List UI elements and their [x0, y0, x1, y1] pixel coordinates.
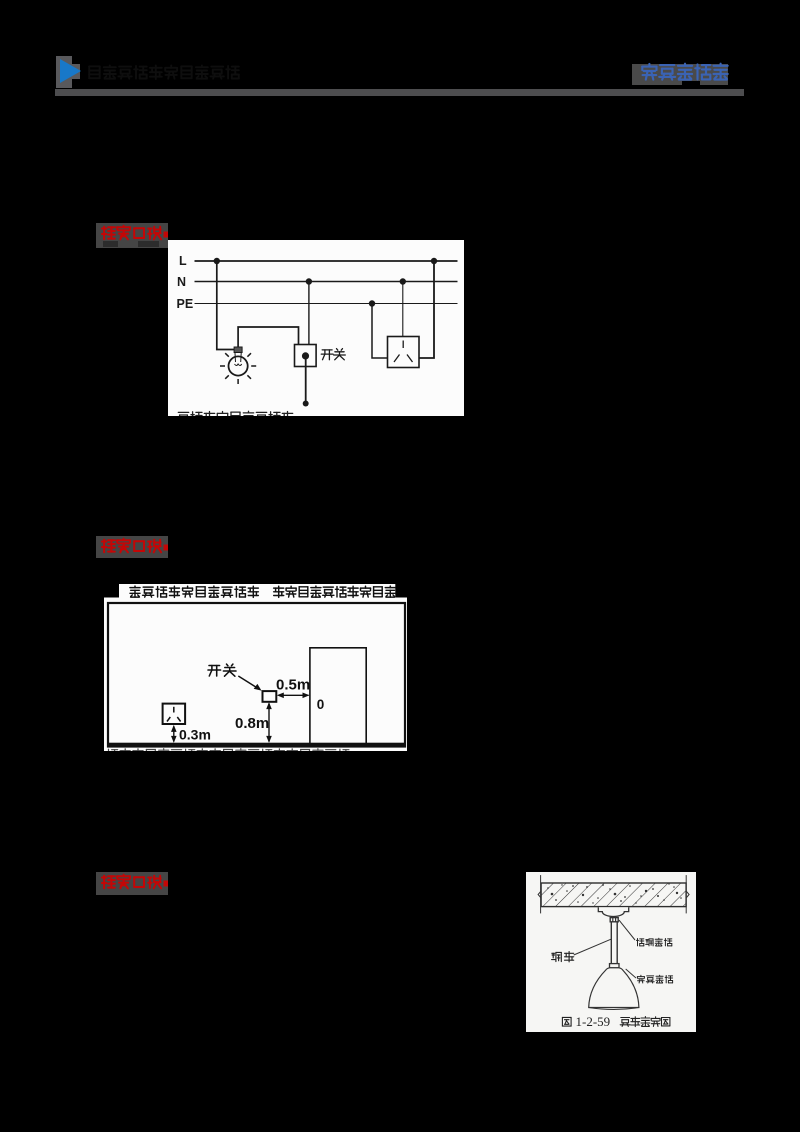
- diagram 1 white box: lighting circuit L/N/PE with lamp, switch, socket: [168, 240, 464, 416]
- label threaded connection: [638, 975, 673, 983]
- room wall rectangle: [108, 603, 405, 747]
- header logo blue play triangle: [60, 59, 81, 83]
- caption clipped at box bottom: [177, 411, 292, 423]
- wire N to switch: [307, 281, 309, 344]
- caption bottom clipped: [107, 748, 349, 760]
- label kai-guan: [208, 664, 236, 676]
- lamp EL bulb with rays: [220, 347, 256, 384]
- dim arrow 0.3m: [172, 726, 174, 741]
- switch bottom terminal dot: [302, 400, 308, 406]
- break zigzag right: [686, 891, 689, 898]
- canopy dome: [599, 907, 629, 916]
- wire lamp top to switch: [238, 327, 298, 347]
- svg-text:PE: PE: [176, 297, 193, 311]
- node on PE at socket branch: [368, 300, 374, 306]
- pin connector: [610, 918, 618, 922]
- floor thick line: [107, 742, 406, 747]
- wire below switch: [304, 357, 306, 404]
- node on L at socket branch: [430, 257, 436, 263]
- svg-text:0.8m: 0.8m: [235, 715, 269, 732]
- socket XS box: [387, 336, 419, 367]
- wire lamp branch from L: [216, 261, 233, 350]
- ceiling slab hatched: [541, 883, 686, 907]
- wire PE line: [194, 302, 457, 304]
- header rule: [55, 89, 744, 96]
- red heading 3: [96, 872, 168, 895]
- caption top chunk 2: [273, 586, 395, 597]
- black corners where scan strip is narrower: [103, 583, 119, 598]
- svg-text:0.3m: 0.3m: [179, 726, 211, 742]
- node on N at switch branch: [305, 278, 311, 284]
- header logo bump: [72, 64, 80, 79]
- svg-text:0: 0: [316, 696, 324, 711]
- lamp shade bell: [589, 968, 639, 1008]
- wire N line: [194, 280, 457, 282]
- node on L at lamp branch: [213, 257, 219, 263]
- caption top chunk 1: [130, 586, 258, 597]
- threaded connector: [610, 964, 620, 968]
- arrow from label to switch: [238, 676, 259, 689]
- svg-text:N: N: [177, 275, 186, 289]
- svg-text:1-2-59: 1-2-59: [576, 1014, 611, 1029]
- dim arrow 0.5m: [278, 694, 308, 696]
- header right gray highlight: [632, 64, 728, 85]
- wire PE to socket left: [372, 303, 388, 358]
- dim arrow 0.8m: [268, 703, 270, 741]
- red heading 1 sub dark bits: [103, 241, 118, 247]
- break zigzag left: [538, 891, 541, 898]
- header logo gray box: [56, 56, 72, 88]
- wire L line: [194, 260, 457, 262]
- switch box: [262, 691, 276, 702]
- pointer line steel pipe: [574, 939, 611, 955]
- diagram 2 white box: room, switch height: [104, 584, 408, 751]
- socket box on left wall: [162, 703, 185, 723]
- wire socket right to L: [419, 261, 434, 358]
- red heading 1 bg+text: [96, 223, 168, 248]
- svg-text:0.5m: 0.5m: [276, 676, 310, 693]
- header small black notch: [682, 81, 700, 86]
- wire N to socket: [401, 281, 403, 336]
- label pin connection: [637, 938, 672, 946]
- boundary tick left: [540, 875, 542, 913]
- boundary tick right: [685, 875, 687, 913]
- label steel pipe (gang guan): [552, 952, 574, 962]
- door: [310, 647, 366, 743]
- label kai-guan (switch): [321, 348, 345, 359]
- svg-text:L: L: [179, 254, 187, 268]
- red heading 2: [96, 536, 168, 558]
- node on N at socket branch: [399, 278, 405, 284]
- diagram 3 white box: pendant lamp on ceiling: [526, 872, 696, 1032]
- switch SA box with dot: [294, 344, 316, 366]
- steel pipe: [611, 922, 613, 964]
- header dark title text: [85, 62, 275, 84]
- caption figure number: [563, 1017, 572, 1026]
- header right blue text: [638, 61, 733, 85]
